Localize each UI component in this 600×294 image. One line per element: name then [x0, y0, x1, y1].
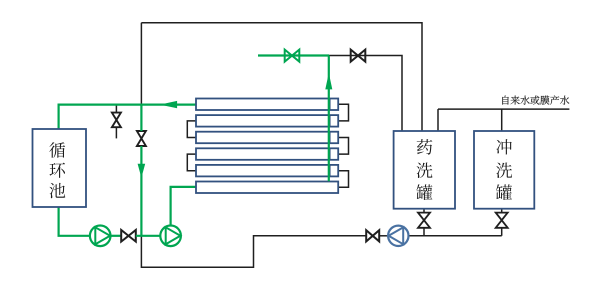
pipe: module 2-3 left interconnect — [187, 121, 196, 138]
pipe: tank suction line to dosing pump — [141, 236, 366, 267]
pipe: module 3-4 right interconnect — [338, 138, 348, 155]
tank: chemical wash tank box — [394, 131, 455, 209]
pump P2: membrane feed pump — [160, 226, 181, 247]
pipe: module 4-5 left interconnect — [187, 154, 196, 171]
pipe: rinse tank outlet stem — [501, 209, 503, 213]
membrane module M6 — [196, 182, 338, 194]
valve: permeate drain valve — [285, 50, 300, 62]
pipe: valve to dosing pump — [379, 235, 388, 237]
pipe: rinse tank valve to header — [501, 228, 503, 236]
label: chemical wash tank 药洗罐 — [416, 139, 432, 200]
pipe: riser above circulation return tee — [140, 23, 142, 105]
tank: circulation pool box — [33, 129, 87, 207]
valve: dosing pump suction valve — [366, 230, 379, 241]
label: feed water note 自来水或膜产水 — [502, 95, 569, 104]
pipe: chemical tank outlet stem — [423, 209, 425, 213]
pipe: drain stub tail — [115, 127, 117, 138]
pipe: chemical tank valve to header — [423, 228, 425, 236]
pipe: module 1-2 right interconnect — [338, 104, 348, 121]
pipe: permeate collection drain line — [258, 54, 329, 56]
label: rinse tank 冲洗罐 — [496, 139, 512, 200]
pipe: pump 2 discharge to membrane module 6 — [171, 187, 196, 226]
pipe: permeate line to chemical tank — [329, 56, 402, 132]
tank: rinse tank box — [474, 131, 534, 209]
pipe: drain stub with valve below return line — [115, 105, 117, 113]
pipe: membrane outlet return to circulation pool — [59, 105, 196, 129]
pipe: top bypass from concentrate line to chemical tank — [141, 23, 422, 131]
valve: permeate-to-tank isolation valve — [351, 50, 366, 62]
arrow: permeate flow up — [325, 73, 332, 90]
pipe: pump 1 discharge to valve — [111, 235, 122, 237]
valve: circulation feed valve — [137, 131, 146, 146]
pipe: feed water header — [438, 108, 569, 110]
pipe: dosing pump discharge header — [408, 235, 502, 237]
pump P1: circulation pump — [90, 226, 111, 247]
pump P3: chemical dosing pump — [388, 226, 408, 246]
valve: chemical tank outlet valve — [418, 213, 430, 228]
pipe: module 5-6 right interconnect — [338, 171, 348, 188]
membrane module M5 — [196, 165, 338, 177]
membrane module M4 — [196, 148, 338, 160]
valve: drain valve on stub — [112, 113, 121, 128]
pipe: circulation branch below valve to pump tee — [140, 146, 142, 236]
membrane module M2 — [196, 115, 338, 127]
valve: rinse tank outlet valve — [496, 213, 508, 228]
pipe: circulation branch down from return tee — [140, 105, 142, 132]
membrane module M3 — [196, 132, 338, 144]
valve: pump discharge crossover valve — [121, 230, 136, 242]
pipe: permeate riser from membrane stack — [328, 56, 330, 182]
label: circulation pool 循环池 — [49, 142, 65, 198]
arrow: flow down to pump suction — [138, 164, 146, 178]
arrow: flow toward circulation pool — [160, 101, 177, 108]
pipe: feed water drop to rinse tank — [501, 109, 503, 131]
pipe: crossover valve to pump 2 — [136, 235, 161, 237]
pipe: feed water drop to chemical tank — [437, 109, 439, 131]
pipe: circulation pool outlet to pump 1 — [59, 207, 90, 236]
membrane module M1 — [196, 99, 338, 111]
